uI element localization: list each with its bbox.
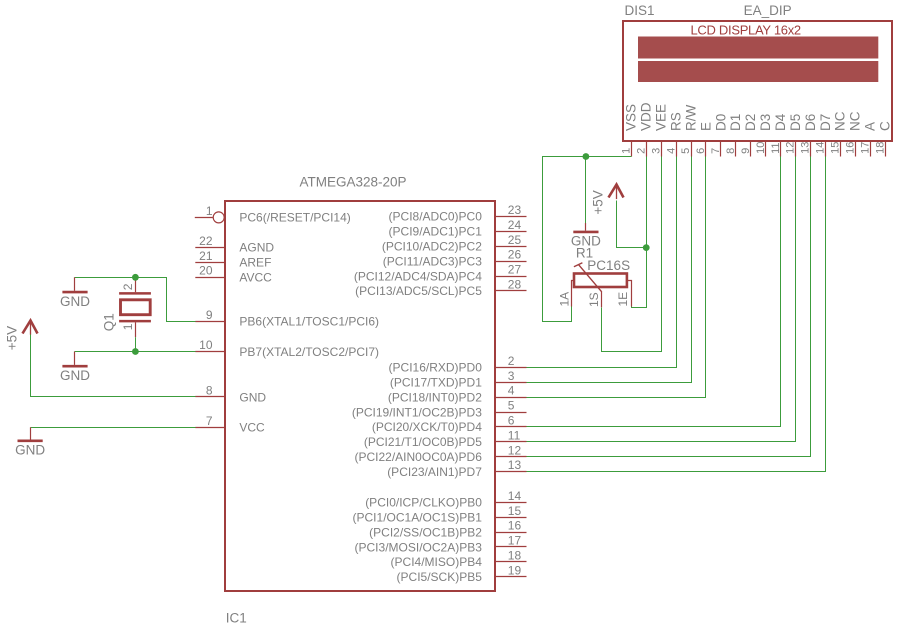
svg-text:24: 24 [508,218,522,232]
svg-text:20: 20 [199,264,213,278]
svg-text:11: 11 [770,142,782,153]
svg-text:(PCI0/ICP/CLKO)PB0: (PCI0/ICP/CLKO)PB0 [365,496,482,510]
svg-text:D1: D1 [728,114,743,131]
svg-text:4: 4 [508,384,515,398]
svg-text:1: 1 [121,323,135,330]
svg-text:6: 6 [508,414,515,428]
svg-text:ATMEGA328-20P: ATMEGA328-20P [300,174,407,189]
svg-text:10: 10 [199,338,213,352]
svg-text:D6: D6 [803,114,818,131]
svg-text:(PCI5/SCK)PB5: (PCI5/SCK)PB5 [397,570,483,584]
svg-text:AREF: AREF [239,256,271,270]
svg-text:(PCI19/INT1/OC2B)PD3: (PCI19/INT1/OC2B)PD3 [352,405,482,419]
svg-text:Q1: Q1 [101,313,116,331]
svg-text:(PCI18/INT0)PD2: (PCI18/INT0)PD2 [388,390,482,404]
svg-text:DIS1: DIS1 [625,3,655,18]
svg-text:(PCI23/AIN1)PD7: (PCI23/AIN1)PD7 [387,465,482,479]
svg-text:9: 9 [740,148,752,154]
svg-text:D4: D4 [773,113,788,131]
svg-text:GND: GND [571,234,601,249]
svg-text:21: 21 [199,249,213,263]
svg-text:27: 27 [508,263,522,277]
svg-text:13: 13 [800,142,812,154]
svg-text:C: C [878,121,893,131]
svg-text:19: 19 [508,563,522,577]
svg-text:1: 1 [206,204,213,218]
svg-text:28: 28 [508,278,522,292]
svg-text:D7: D7 [818,114,833,131]
svg-text:10: 10 [755,142,767,154]
svg-text:RS: RS [668,112,683,131]
svg-text:A: A [863,122,878,131]
svg-text:1S: 1S [587,292,601,307]
svg-text:8: 8 [206,384,213,398]
svg-text:15: 15 [508,504,522,518]
svg-text:VCC: VCC [239,421,265,435]
svg-text:(PCI22/AIN0OC0A)PD6: (PCI22/AIN0OC0A)PD6 [355,450,483,464]
svg-text:5: 5 [680,148,692,154]
svg-text:6: 6 [695,148,707,154]
svg-text:13: 13 [508,458,522,472]
svg-text:26: 26 [508,248,522,262]
svg-text:18: 18 [874,142,886,154]
svg-text:D3: D3 [758,114,773,131]
svg-text:+5V: +5V [590,190,605,214]
svg-text:(PCI21/T1/OC0B)PD5: (PCI21/T1/OC0B)PD5 [364,435,482,449]
svg-text:(PCI10/ADC2)PC2: (PCI10/ADC2)PC2 [382,240,482,254]
svg-text:12: 12 [508,443,522,457]
svg-text:17: 17 [508,534,522,548]
svg-text:1A: 1A [557,292,571,307]
svg-text:(PCI9/ADC1)PC1: (PCI9/ADC1)PC1 [389,225,483,239]
svg-text:1: 1 [621,148,633,154]
svg-text:7: 7 [710,148,722,154]
svg-text:NC: NC [833,111,848,131]
svg-text:14: 14 [815,142,827,154]
svg-text:GND: GND [239,390,266,404]
svg-text:(PCI20/XCK/T0)PD4: (PCI20/XCK/T0)PD4 [372,420,482,434]
svg-text:2: 2 [121,283,135,290]
svg-text:12: 12 [785,142,797,154]
svg-text:D0: D0 [713,114,728,131]
svg-text:(PCI1/OC1A/OC1S)PB1: (PCI1/OC1A/OC1S)PB1 [353,511,483,525]
svg-text:D2: D2 [743,114,758,131]
svg-text:VDD: VDD [639,102,654,131]
svg-text:PB7(XTAL2/TOSC2/PCI7): PB7(XTAL2/TOSC2/PCI7) [239,345,379,359]
svg-text:15: 15 [830,142,842,154]
svg-text:EA_DIP: EA_DIP [744,3,792,18]
svg-text:23: 23 [508,203,522,217]
svg-text:2: 2 [635,148,647,154]
svg-text:(PCI11/ADC3)PC3: (PCI11/ADC3)PC3 [383,254,482,268]
svg-text:(PCI8/ADC0)PC0: (PCI8/ADC0)PC0 [389,210,483,224]
svg-text:18: 18 [508,549,522,563]
svg-text:IC1: IC1 [226,611,247,626]
svg-text:AVCC: AVCC [239,270,272,284]
svg-text:R/W: R/W [683,105,698,132]
svg-text:3: 3 [650,148,662,154]
svg-text:LCD DISPLAY 16x2: LCD DISPLAY 16x2 [691,23,801,38]
svg-text:AGND: AGND [239,241,274,255]
svg-text:5: 5 [508,399,515,413]
svg-text:16: 16 [844,142,856,154]
svg-text:(PCI3/MOSI/OC2A)PB3: (PCI3/MOSI/OC2A)PB3 [355,540,483,554]
svg-text:PC6(/RESET/PCI14): PC6(/RESET/PCI14) [239,211,350,225]
svg-text:+5V: +5V [4,326,19,350]
svg-text:1E: 1E [616,292,630,307]
svg-text:14: 14 [508,489,522,503]
svg-text:(PCI4/MISO)PB4: (PCI4/MISO)PB4 [391,555,483,569]
svg-text:D5: D5 [788,114,803,131]
svg-text:16: 16 [508,519,522,533]
svg-text:GND: GND [60,368,90,383]
svg-text:VEE: VEE [654,104,669,131]
svg-text:(PCI16/RXD)PD0: (PCI16/RXD)PD0 [389,361,483,375]
svg-text:PB6(XTAL1/TOSC1/PCI6): PB6(XTAL1/TOSC1/PCI6) [239,315,379,329]
svg-text:(PCI12/ADC4/SDA)PC4: (PCI12/ADC4/SDA)PC4 [354,269,482,283]
svg-text:(PCI17/TXD)PD1: (PCI17/TXD)PD1 [390,376,482,390]
svg-text:4: 4 [665,148,677,154]
svg-text:(PCI2/SS/OC1B)PB2: (PCI2/SS/OC1B)PB2 [369,525,482,539]
svg-text:9: 9 [206,308,213,322]
svg-text:VSS: VSS [624,104,639,131]
svg-text:22: 22 [199,234,213,248]
svg-text:PC16S: PC16S [587,258,630,273]
svg-text:NC: NC [848,111,863,131]
svg-text:GND: GND [60,294,90,309]
svg-text:8: 8 [725,148,737,154]
svg-text:(PCI13/ADC5/SCL)PC5: (PCI13/ADC5/SCL)PC5 [355,284,482,298]
svg-text:GND: GND [15,443,45,458]
svg-text:7: 7 [206,414,213,428]
svg-text:2: 2 [508,354,515,368]
svg-text:11: 11 [508,428,521,442]
svg-text:17: 17 [859,142,871,154]
svg-text:25: 25 [508,233,522,247]
svg-text:E: E [698,122,713,131]
svg-text:3: 3 [508,369,515,383]
